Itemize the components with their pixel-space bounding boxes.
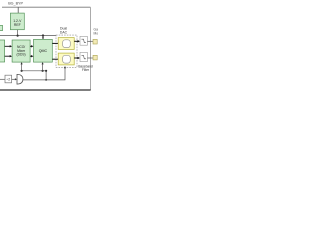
wire clock distribution lower [23, 68, 65, 80]
svg-text:(DDS): (DDS) [17, 53, 26, 57]
arrow NCO to QMC lower [30, 55, 32, 57]
block upper-left (cut off at edge) [0, 25, 3, 30]
arrowhead clock into NCO [21, 62, 23, 64]
svg-text:REF: REF [14, 23, 21, 27]
wire filter Q output [87, 57, 93, 59]
arrowhead into QMC top [42, 37, 44, 39]
arrow into NCO lower [5, 55, 11, 57]
svg-text:BG_BYP: BG_BYP [8, 1, 23, 5]
block DAC I [58, 38, 74, 50]
wire clock distribution upper [22, 70, 46, 72]
wire filter I output [87, 40, 93, 42]
arrow QMC to DAC I [52, 42, 61, 44]
arrow DAC I to filter I [74, 40, 78, 42]
svg-text:÷2: ÷2 [6, 78, 10, 82]
junction dot bus/QMC [42, 34, 44, 36]
block NCO/Mixer (DDS) [12, 40, 30, 62]
svg-text:DAC: DAC [60, 31, 68, 35]
wire BG_BYP pin to 1.2-V REF [17, 7, 19, 13]
port modulator Q [93, 55, 97, 60]
svg-text:QMC: QMC [39, 49, 48, 53]
block filter I [80, 36, 87, 45]
arrow into NCO upper [5, 45, 11, 47]
wire clock to NCO [21, 64, 23, 71]
chip border bottom [0, 89, 91, 91]
wire reference bus [0, 35, 56, 37]
chip border right [89, 7, 91, 90]
arrow QMC to DAC Q [52, 58, 61, 60]
dual DAC dashed box [56, 35, 77, 67]
block left interpolation (cut off at edge) [0, 40, 5, 62]
junction dot riser/lower wire [45, 79, 47, 81]
block DAC Q [58, 53, 74, 65]
junction dot QMC tap [42, 70, 44, 72]
arrow NCO to QMC upper [30, 45, 32, 47]
clock buffer [17, 74, 23, 84]
divider /2 [5, 75, 12, 83]
block QMC [34, 39, 53, 62]
chip border top [2, 6, 90, 8]
arrow divider to clock buffer [12, 78, 16, 80]
arrowhead clock into QMC [42, 62, 44, 64]
wire bus to QMC top [42, 36, 44, 38]
block 1.2-V REF [10, 13, 24, 30]
svg-text:Mo: Mo [94, 32, 99, 36]
junction dot REF/bus [17, 35, 19, 37]
wire REF output to bus [17, 30, 19, 36]
svg-text:Filter: Filter [82, 68, 90, 72]
junction dot riser/upper wire [45, 70, 47, 72]
wire clock riser [45, 71, 47, 80]
arrowhead clock into dual DAC [64, 66, 66, 68]
junction dot NCO tap [21, 70, 23, 72]
clock input wire [0, 78, 5, 80]
block filter Q [80, 52, 87, 61]
wire clock to QMC [42, 64, 44, 71]
arrow DAC Q to filter Q [74, 57, 78, 59]
port modulator I [93, 39, 97, 44]
